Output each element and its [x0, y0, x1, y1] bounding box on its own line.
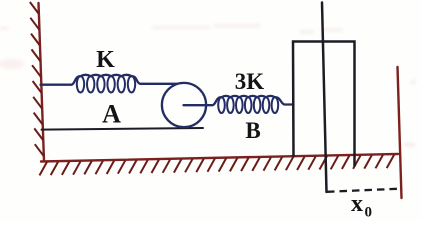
svg-text:x: x	[351, 191, 363, 217]
block (mass)	[293, 42, 355, 167]
spring K (upper spring from wall)	[41, 75, 185, 85]
wall (left fixed support)	[39, 3, 45, 161]
svg-text:0: 0	[365, 205, 373, 221]
right reference wall	[398, 67, 402, 198]
svg-text:K: K	[96, 47, 115, 73]
svg-text:A: A	[102, 100, 121, 129]
dashed line marking x0 displacement	[327, 189, 397, 192]
svg-text:3K: 3K	[235, 69, 265, 94]
svg-text:B: B	[245, 118, 260, 143]
spring 3K (from pulley axle to block)	[184, 96, 294, 105]
floor (ground)	[41, 154, 398, 162]
scan smudge faint text top middle	[152, 24, 342, 34]
vertical reference line through block	[322, 3, 327, 193]
floor hatching	[40, 155, 395, 176]
wire/string A: wall to pulley bottom tangent	[42, 128, 204, 130]
pulley (disc)	[162, 83, 206, 127]
wall hatching	[30, 2, 44, 156]
scan smudge top-left edge	[0, 27, 24, 69]
